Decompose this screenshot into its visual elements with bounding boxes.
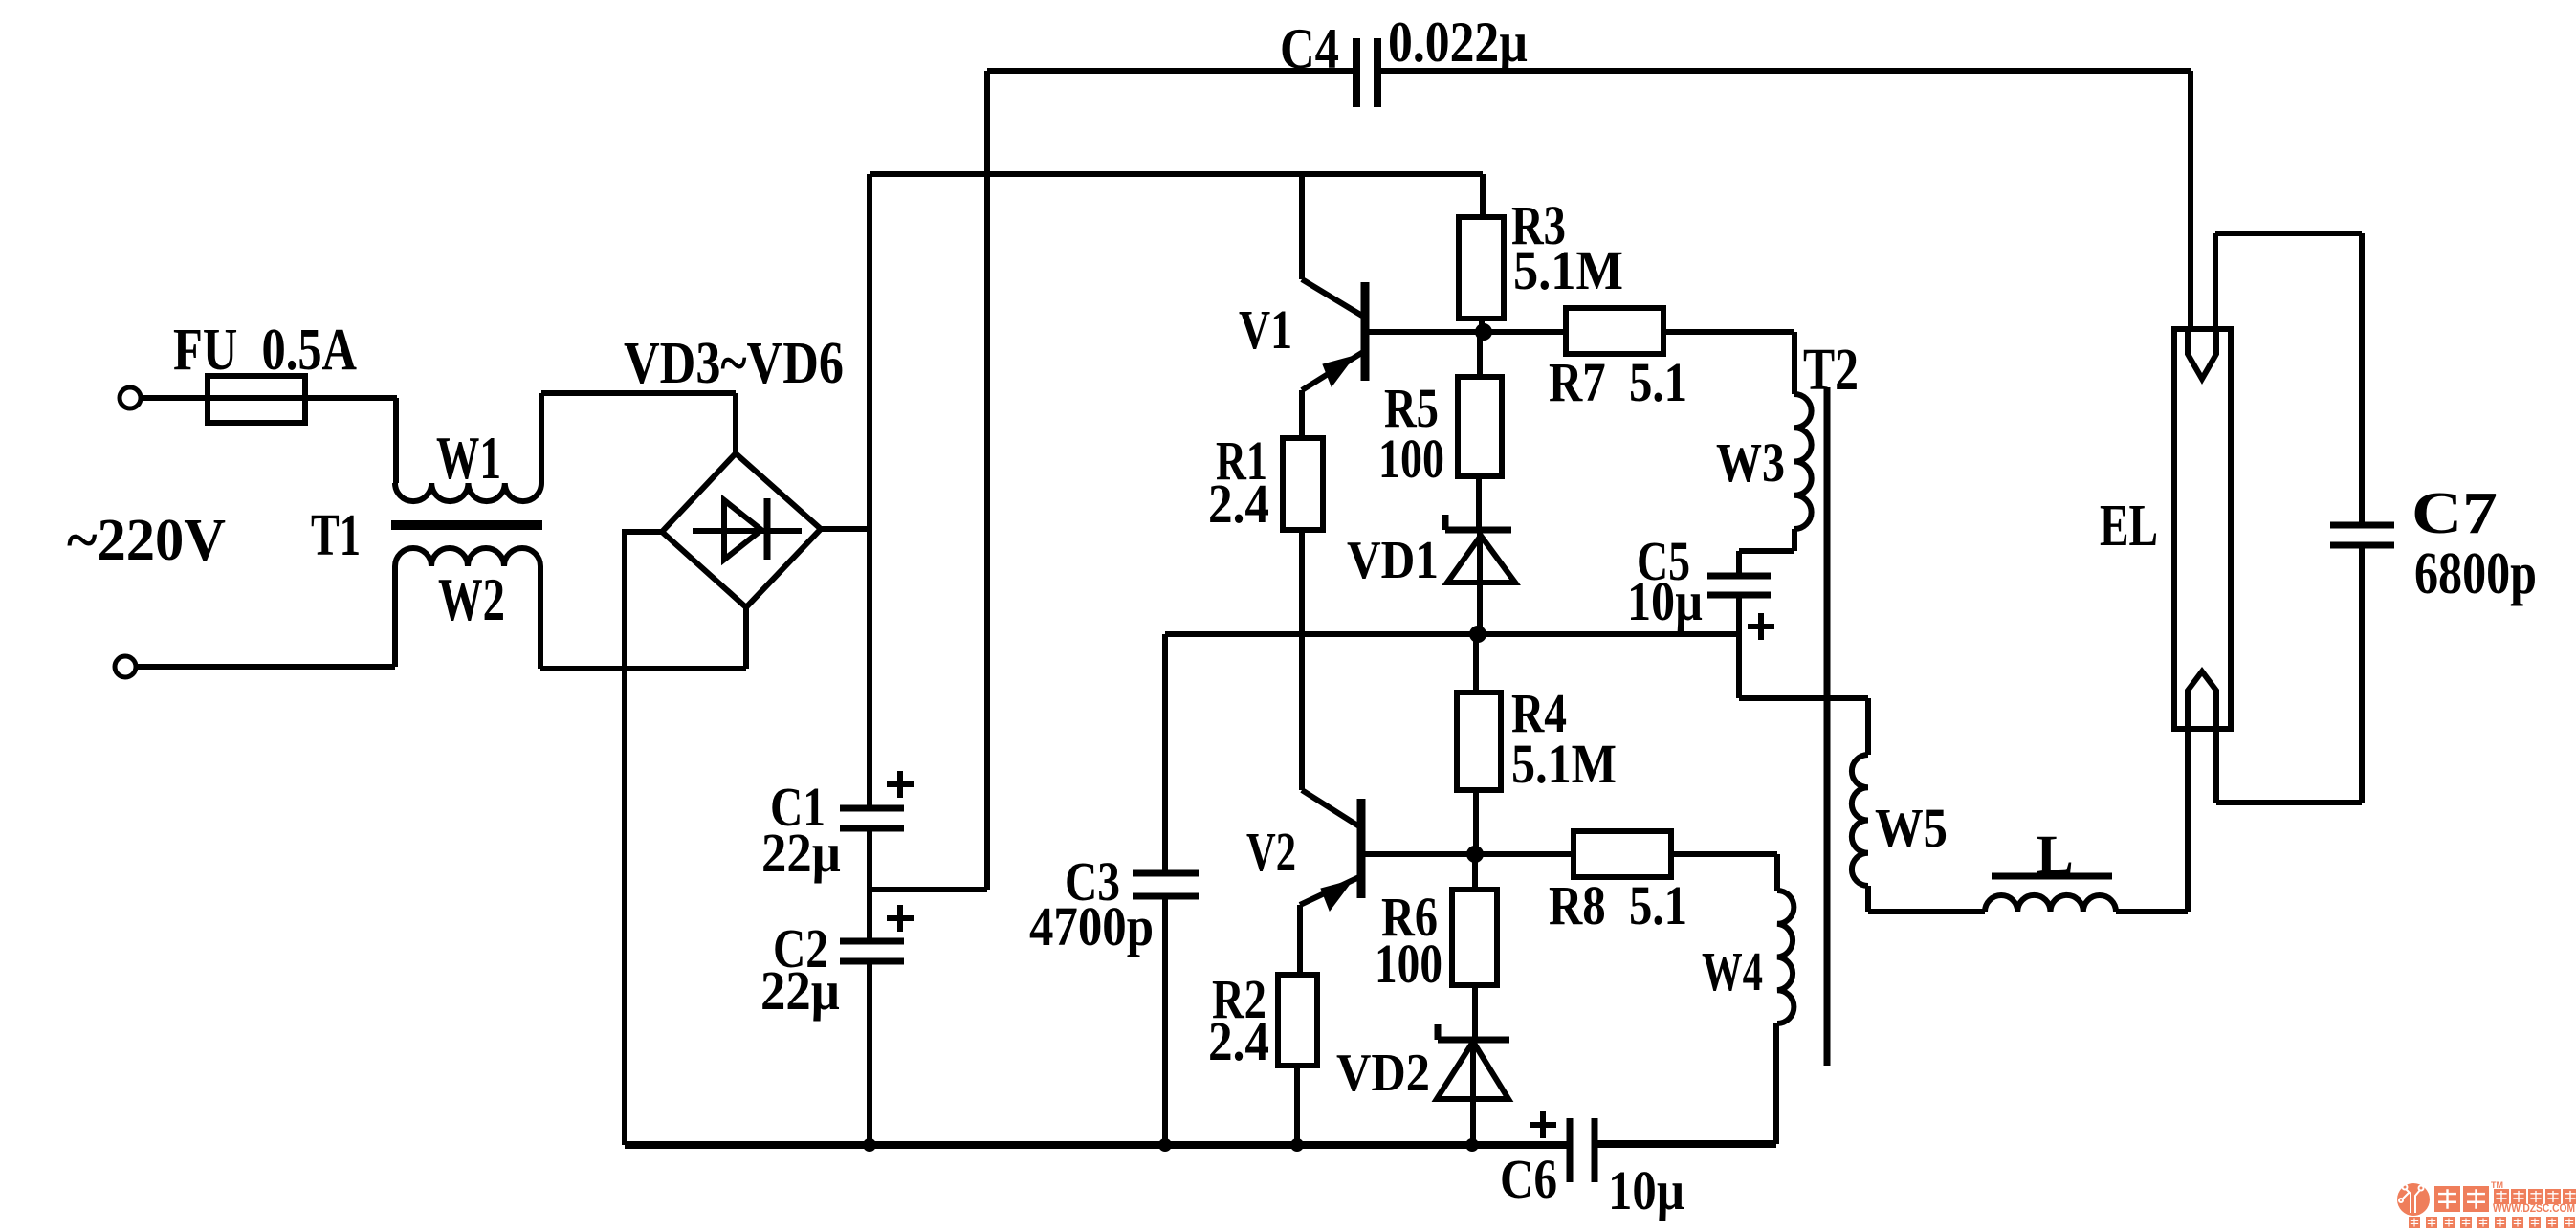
svg-text:W5: W5 [1875,797,1948,859]
svg-text:22µ: 22µ [760,959,840,1022]
svg-text:W4: W4 [1702,940,1763,1002]
svg-text:22µ: 22µ [761,822,841,884]
svg-text:C6: C6 [1500,1148,1557,1210]
svg-text:FU 0.5A: FU 0.5A [173,318,357,383]
svg-text:5.1M: 5.1M [1511,733,1617,795]
svg-text:6800p: 6800p [2414,541,2537,606]
svg-text:V2: V2 [1246,821,1296,883]
svg-text:VD2: VD2 [1336,1044,1430,1103]
svg-text:2.4: 2.4 [1208,473,1269,535]
svg-text:100: 100 [1375,933,1442,995]
svg-text:TM: TM [2491,1180,2503,1190]
svg-text:VD1: VD1 [1347,531,1439,590]
svg-text:T1: T1 [311,503,361,568]
svg-text:WWW.DZSC.COM: WWW.DZSC.COM [2493,1203,2575,1215]
svg-text:R8 5.1: R8 5.1 [1549,874,1687,936]
svg-text:~220V: ~220V [67,508,226,573]
svg-text:L: L [2037,824,2074,886]
svg-text:R7 5.1: R7 5.1 [1549,351,1687,413]
svg-text:C4: C4 [1280,17,1339,80]
svg-text:5.1M: 5.1M [1513,239,1623,301]
svg-text:W1: W1 [436,424,501,492]
svg-text:VD3~VD6: VD3~VD6 [624,331,844,396]
svg-text:10µ: 10µ [1608,1159,1684,1221]
svg-text:C7: C7 [2411,481,2498,546]
svg-text:T2: T2 [1803,338,1859,403]
svg-text:W2: W2 [438,565,505,633]
svg-text:W3: W3 [1716,431,1785,494]
svg-text:4700p: 4700p [1029,895,1154,957]
svg-text:2.4: 2.4 [1208,1010,1269,1072]
svg-text:10µ: 10µ [1627,570,1703,632]
svg-text:V1: V1 [1239,298,1292,361]
svg-text:0.022µ: 0.022µ [1388,11,1528,74]
svg-text:100: 100 [1378,428,1444,490]
svg-text:EL: EL [2100,494,2158,559]
